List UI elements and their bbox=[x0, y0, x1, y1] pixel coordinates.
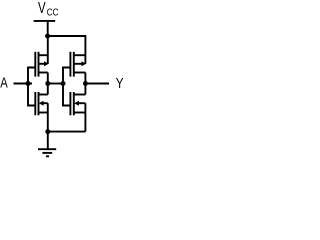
wire Q1 source tie bbox=[47, 36, 49, 64]
wire top rail bbox=[48, 36, 86, 64]
transistor Q4 bulk arrow bbox=[74, 101, 79, 106]
transistor Q4 gate bar bbox=[69, 92, 71, 115]
transistor Q1 bulk stub bbox=[39, 63, 45, 65]
ground bar 1 bbox=[38, 148, 56, 150]
node junction dot A bbox=[26, 81, 31, 86]
transistor Q4 channel bar bbox=[73, 92, 75, 115]
transistor Q1 gate bar bbox=[34, 52, 36, 77]
transistor Q3 drain stub bbox=[39, 94, 48, 96]
transistor Q4 bulk stub bbox=[78, 102, 86, 104]
transistor Q2 drain stub bbox=[74, 72, 86, 74]
transistor Q3 gate bar bbox=[34, 92, 36, 115]
transistor Q1 bulk arrow bbox=[44, 61, 49, 66]
wire input A bbox=[14, 83, 33, 85]
transistor Q4 drain stub bbox=[74, 94, 86, 96]
label VCC bbox=[38, 0, 59, 18]
transistor Q2 source stub bbox=[74, 54, 86, 56]
wire VCC to node bbox=[47, 21, 49, 36]
wire ground lead bbox=[47, 132, 49, 149]
node junction dot Y bbox=[83, 81, 88, 86]
VCC power symbol bbox=[34, 20, 56, 22]
wire Q2 drain down bbox=[84, 73, 86, 84]
svg-text:A: A bbox=[0, 74, 8, 91]
transistor Q1 drain stub bbox=[39, 72, 48, 74]
transistor Q4 source stub bbox=[74, 112, 86, 114]
svg-text:CC: CC bbox=[47, 6, 59, 17]
ground bar 2 bbox=[42, 152, 52, 154]
node junction dot GND bbox=[45, 129, 50, 134]
transistor Q3 bulk stub bbox=[43, 102, 48, 104]
svg-text:V: V bbox=[38, 0, 46, 17]
transistor Q3 channel bar bbox=[38, 92, 40, 115]
wire Q4 gate lead bbox=[63, 84, 70, 106]
transistor Q1 channel bar bbox=[38, 52, 40, 77]
transistor Q2 bulk stub bbox=[74, 63, 82, 65]
transistor Q2 channel bar bbox=[73, 52, 75, 77]
node junction dot stage1 out bbox=[45, 81, 50, 86]
wire node1 to stage2 bbox=[48, 83, 63, 85]
svg-text:Y: Y bbox=[116, 75, 124, 92]
wire bottom rail bbox=[48, 131, 86, 133]
transistor Q2 bulk arrow bbox=[81, 61, 86, 66]
wire Q4 source tie down bbox=[84, 103, 86, 131]
node junction dot VCC bbox=[45, 34, 50, 39]
wire Q1 drain down bbox=[47, 73, 49, 84]
transistor Q1 source stub bbox=[39, 54, 48, 56]
wire Q3 drain up bbox=[47, 84, 49, 95]
wire Q3 gate lead bbox=[28, 84, 35, 106]
transistor Q3 bulk arrow bbox=[39, 101, 44, 106]
transistor Q2 gate bar bbox=[69, 52, 71, 77]
wire Q3 source tie down bbox=[47, 103, 49, 131]
node junction dot stage2 in bbox=[61, 81, 66, 86]
wire Q4 drain up bbox=[84, 84, 86, 95]
wire output Y bbox=[85, 83, 109, 85]
transistor Q3 source stub bbox=[39, 112, 48, 114]
wire Q1 gate lead bbox=[28, 68, 35, 84]
wire Q2 gate lead bbox=[63, 68, 70, 84]
ground bar 3 bbox=[46, 155, 49, 157]
